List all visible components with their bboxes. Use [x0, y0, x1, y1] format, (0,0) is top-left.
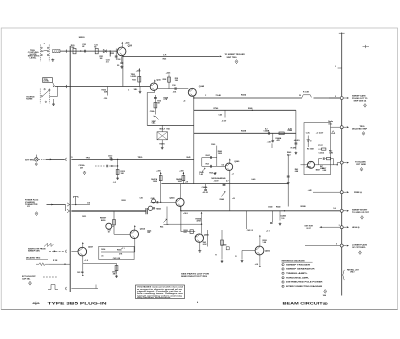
box around reset network [99, 246, 134, 259]
svg-text:+2.8: +2.8 [255, 264, 258, 266]
transistor Q655 [195, 234, 203, 242]
node j2 with stub [106, 50, 111, 63]
svg-text:R 1M: R 1M [53, 260, 58, 262]
label C651 [82, 216, 86, 218]
wire sawtooth line [49, 250, 65, 252]
transistor Q657 [78, 247, 87, 256]
svg-text:180K: 180K [218, 153, 223, 155]
voltage note box [136, 285, 185, 299]
test point T [73, 196, 78, 205]
boxed label TRIGGERING LEVEL [43, 78, 53, 83]
svg-text:RT40: RT40 [214, 107, 219, 110]
svg-text:+8: +8 [183, 101, 185, 103]
wire Q345 collector column [193, 96, 195, 183]
label Q24 [128, 45, 133, 48]
svg-text:+300: +300 [156, 170, 160, 172]
label Q655 [204, 235, 210, 237]
lamp RESET B650 [100, 218, 114, 230]
wire trig line main [71, 158, 193, 160]
resistor R33 column [131, 68, 142, 86]
label R3 100K [307, 148, 315, 150]
wire R654 row [101, 251, 135, 253]
probe coupling row [95, 165, 118, 168]
power plug connector label [25, 200, 39, 209]
wire right mid column [287, 155, 289, 207]
tiny mark 4 [197, 301, 199, 304]
svg-text:-1.5V: -1.5V [267, 142, 272, 144]
svg-text:1: 1 [282, 264, 283, 266]
wire LVL link row [167, 224, 202, 225]
resistor R 1.8K bump [299, 92, 311, 98]
label L640 [252, 178, 256, 181]
svg-text:LEVEL: LEVEL [30, 58, 37, 60]
label C.F. [163, 54, 167, 60]
bus hop trig [66, 157, 73, 161]
label C240A [205, 93, 247, 96]
svg-text:NORM: NORM [26, 98, 32, 100]
svg-text:5: 5 [336, 243, 337, 245]
wire right box column [295, 110, 297, 149]
svg-text:C-8C: C-8C [306, 132, 311, 134]
delayed trig squiggle [36, 260, 58, 265]
label RT40 [214, 107, 219, 110]
transistor Q345 [188, 88, 196, 96]
neon NE640 cluster [209, 172, 221, 183]
svg-text:R649: R649 [220, 198, 224, 201]
output row 6: ext hor in [305, 225, 360, 230]
svg-text:B650: B650 [101, 220, 105, 222]
label C510A + diamond [79, 164, 86, 174]
svg-text:BEAM CIRCUIT◎: BEAM CIRCUIT◎ [283, 302, 328, 306]
label C645 [199, 171, 205, 176]
svg-text:R41: R41 [167, 127, 170, 130]
wire trig input row [60, 50, 117, 53]
svg-text:DISTRIBUTED POLE POWER: DISTRIBUTED POLE POWER [286, 282, 323, 284]
label C240 column [211, 143, 223, 166]
output row 1: sweep gate [329, 95, 368, 108]
svg-text:TO GRID OF CRT: TO GRID OF CRT [352, 212, 370, 214]
svg-text:HIGH ◎: HIGH ◎ [352, 226, 360, 229]
label +18.8 [183, 213, 188, 215]
svg-text:C36A: C36A [150, 110, 155, 113]
svg-text:TD640: TD640 [156, 208, 161, 211]
svg-text:C.F.: C.F. [163, 54, 167, 56]
tunnel diode TD640 at gate end [140, 197, 162, 215]
wire Q34-Q345 link row [158, 88, 189, 90]
wire R650A column [196, 212, 203, 234]
svg-text:FREE ◎: FREE ◎ [354, 191, 362, 194]
svg-text:SW20: SW20 [79, 37, 86, 39]
svg-text:1.2M: 1.2M [329, 152, 333, 154]
interconnect diamond 1 [235, 60, 238, 64]
svg-text:C65 8.2K: C65 8.2K [113, 258, 121, 260]
wire mult mid line [147, 124, 194, 126]
trigger input label block [28, 50, 40, 60]
blanking box [304, 123, 331, 175]
arrow to sweep trigger [220, 56, 222, 58]
ground Q655 emitter [198, 242, 201, 252]
transistor Q34 [150, 83, 157, 90]
label -1.5V + stub [267, 142, 272, 148]
source switch SW (dashed) [40, 86, 57, 103]
wire sawtooth to Q657 [71, 250, 78, 252]
see parts list note [181, 273, 210, 278]
wire Q656 collector stub [259, 235, 267, 246]
capacitor C510 on trig line [108, 155, 118, 160]
svg-text:R 47K: R 47K [291, 146, 297, 149]
svg-text:.001: .001 [147, 232, 150, 234]
svg-text:elect: elect [328, 122, 332, 125]
label SW20 top [79, 37, 86, 39]
pot wiper arrow to level line [53, 83, 55, 88]
svg-text:4: 4 [282, 276, 283, 279]
svg-text:C65 2.2: C65 2.2 [247, 230, 253, 232]
svg-text:470K: 470K [197, 219, 202, 222]
svg-text:CRT GRID: CRT GRID [356, 164, 367, 166]
resistor R645B column [176, 170, 185, 183]
output row 2: trigd sweep [340, 126, 367, 136]
pot LVL cluster below TD645 [160, 207, 169, 229]
svg-text:+C 14.3V: +C 14.3V [316, 131, 324, 134]
resistor R on gate drop [108, 220, 116, 234]
svg-text:50: 50 [299, 95, 301, 97]
wire vertical bus right (plug connector line) [341, 33, 343, 296]
wire R647A lower column [160, 184, 161, 203]
wire HF stab row 1 [202, 154, 217, 167]
svg-text:4.5-25: 4.5-25 [203, 191, 208, 194]
svg-text:.01: .01 [101, 255, 103, 257]
svg-text:SWEEP TRIGGER: SWEEP TRIGGER [286, 264, 311, 266]
capacitor C640 cluster [268, 206, 287, 225]
svg-text:2: 2 [335, 96, 336, 98]
wire divider column [146, 93, 148, 126]
ground stub mid lower line [271, 133, 274, 142]
label R36B [164, 97, 169, 101]
resistor R655 column [112, 258, 121, 277]
transistor Q645 [176, 198, 184, 206]
svg-text:C36: C36 [172, 85, 176, 87]
interconnect diamond holdoff [29, 281, 32, 285]
resistor R20 [71, 45, 76, 54]
legend items [282, 263, 323, 288]
label Q640 [234, 160, 240, 163]
label R240B [241, 130, 247, 133]
trig sens column [113, 159, 125, 184]
label R38B [175, 78, 179, 82]
column R659 + ground [215, 230, 223, 263]
label NORM [26, 96, 35, 100]
+ arrow Q657 [82, 242, 84, 248]
wire Q656 base row [235, 251, 255, 263]
svg-text:+3: +3 [232, 174, 234, 176]
wire Q640 emitter down [230, 171, 234, 211]
label on gate line [87, 202, 91, 205]
output row 7: lower plate [305, 243, 368, 254]
capacitor C23 column [111, 49, 118, 60]
label +BLKG [294, 140, 301, 142]
wire triggering level row [55, 85, 151, 88]
wire sweep gate line [193, 97, 342, 98]
svg-text:TYPE 3B5 PLUG-IN: TYPE 3B5 PLUG-IN [48, 302, 108, 306]
resistor R640A [276, 132, 285, 142]
label Q656 [265, 251, 271, 253]
holdoff dashes [43, 276, 57, 278]
bus hop sawtooth [65, 250, 68, 253]
label +30 [232, 198, 235, 200]
svg-text:+C 1: +C 1 [266, 230, 270, 232]
wire power plug row [47, 203, 70, 213]
V2 top tick [339, 32, 345, 34]
svg-text:C-658: C-658 [222, 244, 227, 246]
label SEL + ground [134, 87, 142, 94]
label R654 [117, 248, 123, 255]
svg-text:Q24: Q24 [128, 45, 133, 48]
label TO SWEEP TRIGGER [225, 54, 246, 59]
svg-text:2M: 2M [80, 167, 83, 169]
ext holdoff label [22, 276, 36, 280]
delayed trig label [26, 257, 48, 260]
svg-text:6: 6 [282, 286, 283, 288]
svg-text:J: J [335, 66, 336, 68]
svg-text:MULT: MULT [160, 128, 166, 130]
svg-text:R33: R33 [132, 80, 136, 82]
wire Q34 emitter to divider [147, 90, 154, 93]
wire C.F. output line [123, 55, 220, 57]
wire R640B column [266, 211, 273, 233]
wire Q654 emitter down [134, 238, 136, 252]
svg-text:-0.5V: -0.5V [222, 120, 227, 122]
ground (switch SW20) [51, 59, 54, 62]
node delayed trig dot [48, 264, 70, 265]
svg-text:+1.8: +1.8 [84, 260, 87, 262]
svg-text:DELAYED SWP: DELAYED SWP [352, 127, 368, 130]
node RT junction + stub [219, 107, 254, 123]
wire mult lower line [194, 132, 296, 134]
svg-text:SWEEP GEN: SWEEP GEN [28, 251, 40, 253]
wire holdoff row [71, 285, 98, 289]
node Q24 output [122, 56, 123, 57]
transistor Q656 [255, 246, 264, 255]
label -C 14.3V [306, 145, 326, 170]
wire Q645 emitter down [180, 206, 182, 211]
label Q657 [88, 247, 94, 249]
title TYPE 3B5 PLUG-IN [48, 302, 108, 306]
label R650 [122, 200, 126, 202]
svg-text:1M: 1M [100, 58, 103, 60]
svg-text:-0.5: -0.5 [113, 182, 116, 184]
capacitor + R at box col end [291, 143, 298, 154]
label Q654 [140, 228, 146, 231]
label TP on trig line [86, 156, 91, 159]
sawtooth input label [28, 247, 46, 252]
pot SWP CAL [152, 116, 159, 125]
label near Q345 emitter [183, 101, 185, 103]
label Q34 [154, 79, 161, 84]
label EXT TRIG IN [25, 159, 34, 161]
sawtooth waveform glyph [44, 243, 54, 246]
V2 +300 stub [335, 66, 342, 68]
registration + mark top [363, 45, 370, 48]
svg-text:TRIG: TRIG [138, 157, 143, 159]
label 72.4K [216, 94, 222, 97]
svg-text:+18.8: +18.8 [183, 213, 188, 215]
svg-text:R640: R640 [276, 206, 280, 209]
transistor Q654 [130, 230, 138, 238]
label in box right [121, 248, 125, 250]
wire box to row B [331, 126, 341, 128]
label node +19 [185, 181, 188, 183]
capacitor C649 stub [202, 184, 208, 194]
wire Q657 lower stub [77, 263, 85, 276]
svg-text:HORIZONTAL AMPL: HORIZONTAL AMPL [286, 276, 310, 279]
capacitor C640B on lower line [264, 129, 270, 135]
node j1 [80, 50, 81, 51]
svg-text:Q645: Q645 [169, 196, 175, 199]
+225 arrow Q654 [134, 225, 136, 231]
bus hop holdoff [65, 287, 68, 290]
output row 5: sweep short [333, 207, 369, 219]
svg-text:LEVEL: LEVEL [131, 76, 138, 78]
registration + mark bottom left [33, 302, 40, 305]
svg-text:+BLKG: +BLKG [294, 140, 301, 142]
column R657 [203, 230, 208, 247]
svg-text:3: 3 [339, 225, 340, 227]
resistor R636 column [102, 87, 109, 101]
svg-text:C240: C240 [211, 143, 215, 146]
resistor R36 column [150, 95, 161, 115]
resistor R38 column [163, 72, 171, 88]
label C654B [147, 229, 151, 234]
svg-text:+300: +300 [179, 170, 183, 172]
resistor R647A column [151, 170, 162, 183]
svg-text:SWEEP GENERATOR: SWEEP GENERATOR [286, 268, 315, 271]
svg-text:C649: C649 [221, 177, 225, 180]
svg-text:C651: C651 [82, 216, 86, 218]
output row 4: gate out [308, 189, 363, 194]
wire Q657 emitter row [83, 256, 117, 264]
wire mult top line [194, 109, 296, 111]
svg-text:-12.8V: -12.8V [213, 180, 219, 182]
svg-text:-150: -150 [104, 98, 108, 100]
connector circle-X trig [35, 155, 38, 166]
title BEAM CIRCUIT [283, 302, 328, 306]
+225 feed arrow (Q24 collector) [122, 42, 131, 48]
svg-text:SWP TRIG: SWP TRIG [227, 57, 237, 59]
capacitor C24 + ground [117, 56, 124, 68]
svg-text:C654: C654 [101, 248, 105, 251]
capacitor C20 [82, 44, 87, 52]
svg-text:R64: R64 [160, 226, 163, 229]
tunnel diode TD645 [151, 197, 158, 203]
transistor B667 [308, 161, 321, 171]
wire power plug row right [71, 204, 90, 206]
svg-text:R240: R240 [248, 107, 252, 110]
wire Q645 base row [151, 201, 176, 203]
label R645C [187, 156, 191, 159]
svg-text:R 1.8K: R 1.8K [303, 92, 310, 94]
output row 3: to blanking [340, 160, 366, 171]
svg-text:INTERCONNECTING DIAGRAM: INTERCONNECTING DIAGRAM [286, 285, 322, 288]
svg-text:3: 3 [282, 273, 283, 275]
label R650B [301, 206, 307, 208]
svg-text:+C 1: +C 1 [121, 248, 125, 250]
label Q645 [169, 196, 175, 199]
wire HF stab row 2 (Q640 base) [202, 163, 226, 172]
svg-text:C34 22: C34 22 [319, 151, 325, 154]
svg-text:C40: C40 [219, 113, 223, 116]
legend title [282, 260, 313, 263]
svg-text:C640: C640 [268, 206, 272, 209]
wire C656 column [246, 211, 253, 232]
wire gate drop column [113, 211, 115, 234]
diode D22 [100, 49, 107, 59]
svg-text:SEMICONDUCTOR TYPES: SEMICONDUCTOR TYPES [181, 276, 208, 278]
holdoff pulse glyph [48, 285, 58, 290]
label R648 [288, 128, 293, 132]
trimmer C658 [222, 244, 230, 249]
svg-text:vary between instruments.: vary between instruments. [137, 296, 172, 299]
svg-text:OF CRT DEFL: OF CRT DEFL [352, 247, 366, 249]
svg-text:100K: 100K [178, 181, 183, 183]
wire vertical bus left (interconnect line) [69, 46, 71, 292]
svg-text:Q640: Q640 [234, 160, 240, 163]
svg-text:1/64: 1/64 [323, 294, 326, 297]
svg-text:2: 2 [282, 269, 283, 271]
wire upper sweep row [161, 183, 288, 185]
transistor Q640 [225, 163, 232, 170]
label C654 [101, 248, 105, 257]
wire Q645 emitter long column [180, 206, 181, 232]
svg-text:R650B: R650B [301, 206, 307, 208]
svg-text:R650: R650 [122, 200, 126, 202]
label C636 [128, 89, 130, 91]
wire gate line thick [71, 210, 145, 212]
svg-text:LEVEL: LEVEL [44, 81, 51, 83]
svg-text:C45: C45 [140, 197, 143, 200]
pot R649 cluster [220, 177, 229, 201]
interconnect diamond power plug [35, 212, 38, 216]
svg-text:+19: +19 [185, 181, 188, 183]
svg-text:6.2K: 6.2K [288, 128, 293, 130]
label Q345 [199, 85, 205, 88]
svg-text:Q654: Q654 [140, 228, 146, 231]
wire sweep short long line [181, 210, 342, 212]
svg-text:5: 5 [282, 282, 283, 284]
svg-text:C649A: C649A [202, 186, 208, 189]
svg-text:C65 39K: C65 39K [77, 272, 85, 274]
wire Q655 base row [181, 230, 195, 234]
svg-text:+30: +30 [232, 198, 235, 200]
svg-text:CAP SEL: CAP SEL [22, 277, 31, 280]
svg-text:SWP GEN J4: SWP GEN J4 [354, 99, 368, 102]
svg-text:DELAYED TRIG: DELAYED TRIG [26, 257, 41, 260]
diode column in box [307, 136, 312, 148]
svg-text:100: 100 [281, 218, 284, 220]
svg-text:ADJ: ADJ [287, 153, 291, 156]
label TRIG mid [138, 157, 143, 159]
wire Q645 collector [180, 184, 182, 199]
svg-text:Q345: Q345 [199, 85, 205, 88]
partial list note [342, 268, 359, 280]
output row 2 labels left [328, 121, 335, 133]
svg-text:TIMING AMPL: TIMING AMPL [286, 272, 309, 275]
svg-text:4.7: 4.7 [226, 180, 228, 183]
switch SW20 (dashed contacts) [41, 43, 50, 62]
wire B667 to row 3 [301, 163, 341, 166]
label C-8C in box [306, 131, 324, 134]
components on right mid column [287, 168, 299, 184]
svg-text:72.4K: 72.4K [216, 94, 222, 97]
